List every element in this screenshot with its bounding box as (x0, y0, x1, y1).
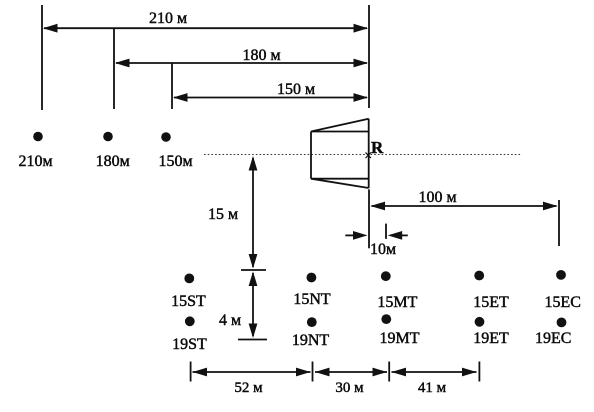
arrowheads 150 м (173, 93, 188, 102)
extension line left (210 м column) (41, 5, 43, 110)
svg-text:R: R (371, 138, 384, 157)
extension line right (horn mouth plane) (368, 5, 370, 108)
svg-text:15MT: 15MT (377, 294, 417, 311)
svg-text:150 м: 150 м (277, 81, 315, 98)
measurement point dot 150м (161, 132, 171, 142)
dot 15NT (307, 273, 317, 283)
dashed axis line (204, 154, 521, 156)
dot 19MT (381, 314, 391, 324)
tick between 15 м and 4 м (241, 269, 266, 271)
extension line middle (180 м column) (113, 29, 115, 109)
dot 15EC (556, 270, 566, 280)
extension line (150 м column) (171, 63, 173, 109)
svg-text:15ST: 15ST (171, 293, 206, 310)
dimension 10м short tick (385, 224, 387, 239)
svg-text:19MT: 19MT (380, 330, 420, 347)
dimension 30 м (315, 371, 387, 373)
dimension 100 м line (372, 205, 557, 207)
svg-text:100 м: 100 м (418, 189, 456, 206)
dot 15ST (184, 274, 194, 284)
dimension 52 м (193, 371, 311, 373)
svg-text:30 м: 30 м (335, 380, 364, 396)
end tick of 100 м (558, 200, 560, 246)
svg-text:52 м: 52 м (234, 380, 263, 396)
dimension 4 м vertical line (252, 273, 254, 336)
svg-text:15NT: 15NT (293, 291, 331, 308)
dot 15MT (381, 271, 391, 281)
svg-text:19ET: 19ET (473, 330, 509, 347)
horn (source R) body (311, 119, 369, 188)
dot 19ET (475, 317, 485, 327)
svg-text:210м: 210м (18, 153, 52, 170)
dimension line 210 м (44, 27, 367, 29)
svg-text:19NT: 19NT (292, 332, 330, 349)
svg-text:15EC: 15EC (544, 294, 580, 311)
dot 19ST (185, 316, 195, 326)
10м left arrow (345, 234, 356, 236)
svg-text:180м: 180м (96, 153, 130, 170)
arrowheads 180 м (115, 59, 130, 68)
svg-text:150м: 150м (158, 153, 192, 170)
dot 19NT (307, 317, 317, 327)
dot 19EC (557, 318, 567, 328)
bottom dimension baseline ticks (191, 362, 480, 382)
tick at bottom of 4 м (238, 339, 267, 341)
svg-text:19ST: 19ST (172, 336, 207, 353)
tick long at horn mouth below (368, 189, 370, 248)
svg-text:210 м: 210 м (149, 10, 187, 27)
10м right arrow (400, 234, 408, 236)
svg-text:19EC: 19EC (535, 330, 571, 347)
dot 15ET (474, 271, 484, 281)
marker x at R (366, 153, 372, 159)
svg-text:15ET: 15ET (473, 294, 509, 311)
dimension 15 м vertical line (252, 158, 254, 267)
arrowheads 210 м (43, 24, 58, 33)
svg-text:15 м: 15 м (208, 206, 238, 223)
dimension line 150 м (174, 97, 367, 99)
dimension 41 м (392, 371, 477, 373)
svg-text:4 м: 4 м (219, 312, 241, 329)
measurement point dot 180м (103, 132, 113, 142)
svg-text:180 м: 180 м (242, 47, 280, 64)
svg-text:41 м: 41 м (418, 380, 447, 396)
dimension line 180 м (116, 62, 367, 64)
svg-text:10м: 10м (370, 241, 396, 258)
measurement point dot 210м (33, 132, 43, 142)
